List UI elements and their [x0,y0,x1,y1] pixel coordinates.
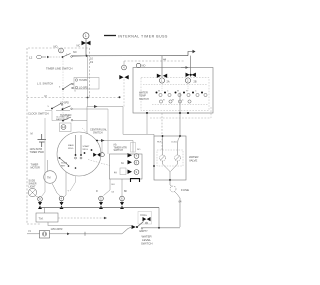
timer dashed partition [27,97,120,99]
legend: internal timer buss [104,34,168,38]
svg-text:BU: BU [112,184,115,186]
winding junction dots [75,154,77,156]
clock switch contacts [51,104,70,111]
svg-text:SWITCH: SWITCH [141,242,152,246]
main wdg label [68,144,74,150]
mid tick [84,232,86,236]
water valve label [189,155,198,163]
ls switch contacts [62,83,73,90]
dashed row divider [143,84,207,86]
no triangle [128,153,133,157]
svg-text:SUDS: SUDS [61,163,68,165]
wire x87 into motor top [86,107,88,134]
arrow tick on y106.5 [94,105,98,108]
svg-text:MAIN: MAIN [68,144,74,147]
svg-text:L.S. SWITCH: L.S. SWITCH [37,82,53,86]
timer dashed enclosure right edge [89,48,91,98]
bottom buss drop at x44.5 [44,208,46,214]
start wdg connector triangles [93,153,100,157]
pin dashes down [161,83,163,91]
wire x180 down to water level switch [179,204,181,227]
buss junction dot [86,55,88,57]
wire x123 down to valve feed [122,107,124,135]
inner circled 2 [134,170,139,175]
pin stems [40,201,122,203]
pin circled P4 [120,196,125,201]
wire from node 1 down to buss [85,39,87,56]
lid switch row 1 [62,106,108,154]
svg-text:WDG: WDG [83,149,89,151]
suds tap label [61,163,68,168]
svg-text:L2: L2 [29,56,33,60]
suds pilot light [28,188,36,196]
connector triangles x162 [157,74,167,78]
dashes to switch [50,56,60,58]
arrowhead [193,50,196,53]
long bottom line [70,233,122,235]
svg-text:TM: TM [47,177,50,180]
inner circled 1 [134,160,139,165]
tiny contact labels [158,90,197,101]
pin circled P2 [59,196,64,201]
svg-text:EMPTY: EMPTY [140,230,149,233]
wire valve to fuse to water level [170,180,172,187]
timer motor circle [44,171,57,184]
inner triangle 1 [128,160,133,164]
water level switch label [141,235,152,246]
motor feed line y106.5 [87,106,123,108]
valve top leads [162,136,164,155]
motor tap dot and arm [59,157,61,159]
power plug [40,231,50,239]
tiny contact number labels in timer column [48,54,77,120]
junction dot valve left [153,165,155,167]
circled pin under x162 [159,78,164,83]
svg-text:SWITCH: SWITCH [139,98,149,101]
TM box [36,213,58,222]
svg-text:19: 19 [90,60,94,64]
valve output diagonals [163,161,178,180]
svg-text:WATER: WATER [189,155,198,159]
dashed line from TM box [58,217,105,219]
node 1 circled [83,33,89,39]
wire water temp switch down to water level switch x180 [179,93,181,137]
full contact frame [138,212,152,225]
svg-text:VALVE: VALVE [189,159,197,163]
svg-text:MOTOR: MOTOR [31,167,40,170]
svg-text:SWITCH: SWITCH [114,149,124,152]
connector triangles on 44 drop [119,75,128,79]
empty contact [141,228,143,230]
node 44 corner drop [123,61,125,65]
svg-text:HI-SPD: HI-SPD [79,79,87,82]
svg-text:1: 1 [85,34,87,38]
svg-text:NO: NO [73,51,77,54]
junction dot bus drop [158,227,160,229]
svg-text:1A: 1A [62,125,65,129]
wire corner into lid switch [45,111,62,121]
second bottom line [48,222,131,226]
pilot light lead [36,196,40,198]
svg-text:2B: 2B [194,81,197,84]
dashed actuator link [82,128,91,136]
drive motor circle [57,132,101,176]
svg-text:NO: NO [137,149,141,151]
capacitor symbol [38,134,47,147]
svg-text:FULL: FULL [141,213,148,217]
circled pin 5 [134,154,139,159]
circled B left in box [136,63,140,67]
water valve box [154,136,186,180]
water temp contacts row 1 dots [156,92,204,94]
internal timer buss dashed line 44 [124,60,185,62]
buss end arrow up right [188,52,193,56]
valve inner dashed box [157,150,183,166]
buss drop to full contact [158,208,160,228]
svg-text:SWITCH: SWITCH [93,131,103,134]
svg-text:LO-SPD: LO-SPD [60,101,69,104]
pin circled P3 [99,196,104,201]
dashed line under box [150,117,211,119]
wire timer contact to water valve [123,134,154,136]
circled pin at 44 drop [122,65,127,70]
timer motor power label [30,148,44,154]
svg-text:NC: NC [77,44,81,48]
svg-text:M: M [45,95,47,98]
centrifugal switch label [90,129,108,135]
full contact circle [146,222,148,224]
connector triangles on bottom buss [38,202,124,209]
svg-text:RET: RET [61,165,66,167]
svg-text:4A: 4A [114,172,117,175]
water temp contacts row 1 circles [159,93,207,96]
timer motor label [31,164,40,170]
fuse [170,186,189,192]
partition end dot [119,96,121,98]
selector contacts [75,79,77,81]
dashed link rows [152,104,208,106]
svg-text:START: START [83,145,91,148]
incoming connector triangle left of pivot [132,225,136,229]
wire down at x190.7 to water temp box [190,56,192,77]
svg-text:TIMER LINE SWITCH: TIMER LINE SWITCH [46,67,72,71]
svg-text:INTERNAL TIMER BUSS: INTERNAL TIMER BUSS [118,34,168,38]
circled contact in box [61,125,66,130]
svg-text:N: N [29,229,31,233]
junction dots under box [179,112,181,114]
svg-text:HOT: HOT [157,142,162,144]
tick arrow [67,233,70,236]
motor internal dots [68,165,70,167]
water temp switch box [133,68,213,114]
water temp switch label [139,92,149,101]
node 2 circled [59,48,64,53]
connector bracket under start box [131,179,140,183]
wire down at x162 from buss to water temp box [161,56,163,77]
svg-text:W: W [158,90,160,92]
svg-text:NO: NO [142,64,146,68]
svg-text:2A: 2A [167,81,170,84]
timer line switch contacts [62,51,86,58]
svg-text:HI-SPEED: HI-SPEED [60,114,72,117]
connector triangles x190.7 [186,73,196,77]
svg-text:W: W [172,99,174,101]
svg-text:BK: BK [124,191,128,193]
timer motor wire [44,118,46,192]
switch arm [137,222,144,228]
svg-text:3A: 3A [121,162,124,165]
water level switch [136,212,152,233]
tick arrow [47,56,50,59]
timer motor switch label block [114,144,128,153]
junction dot partition crossing [87,97,89,99]
box bottom leads [104,179,111,196]
plug line right [50,233,68,235]
wire water temp box to valve feed [146,113,148,134]
centrifugal wire right [97,141,133,153]
svg-text:W: W [177,90,179,92]
valve top junction dots [162,135,164,137]
start switch box [110,154,143,179]
timer dashed enclosure left edge [26,48,28,224]
actuator dashed diagonal [88,160,110,166]
main winding leads [76,135,82,155]
svg-text:COLD: COLD [171,142,177,144]
small connector rect on start box feed [131,143,136,153]
connector triangles on node1 wire [82,41,91,45]
cold solenoid [175,155,181,161]
start wdg label [83,145,91,151]
suds light label [29,180,37,189]
line N to plug [27,233,40,235]
start wdg junction dots [91,149,93,151]
main horizontal timer buss [72,55,188,57]
cord connector glyph [36,55,46,59]
main bottom buss [40,207,159,209]
feeder dash vertical x63 [62,58,64,121]
junction dot on x190.7 wire [190,74,192,76]
circled pins under x190.7 [185,78,190,83]
start wdg circled pin [100,153,104,157]
inner triangle 2 [128,170,133,174]
svg-text:44: 44 [163,57,167,61]
timer dashed bottom stub [27,223,40,225]
timer dashed enclosure top edge [28,47,90,49]
junction dot valve bottom [169,179,171,181]
svg-text:CLOCK SWITCH: CLOCK SWITCH [28,112,49,116]
water level switch right lead [143,227,180,229]
arrow tick left of x190.7 wire [181,67,186,69]
arrow tick on centrifugal wire [101,139,105,142]
motor bottom lead left [64,172,67,197]
wire water temp box to hot valve [161,113,163,150]
svg-text:T.M.: T.M. [39,217,44,221]
svg-text:115V-60HZ: 115V-60HZ [51,228,63,231]
aux contact box [60,123,72,132]
lid switch row 2 [62,117,87,122]
svg-text:WDG: WDG [68,148,74,150]
svg-text:NO: NO [54,45,58,49]
timer motor circle M glyph [30,190,32,192]
svg-text:TIMER PWR: TIMER PWR [30,151,44,154]
junction dot on circle right [96,140,98,142]
diagonal up to water level switch [122,227,131,234]
full contact triangles [143,217,147,221]
hot solenoid [160,155,166,161]
svg-text:FUSE: FUSE [181,188,189,192]
pivot dot [136,226,138,228]
wire x87 buss down [87,56,89,107]
motor bottom lead right [70,176,76,191]
inner small rect [120,168,126,175]
speed selector box [74,78,99,90]
dashed continuation down [123,79,125,107]
svg-text:LO-SPD: LO-SPD [79,87,88,90]
svg-text:M: M [31,133,33,136]
water temp contacts row 2 circles [159,100,191,103]
pin circled P1 [38,197,43,202]
inner dashed box [141,78,209,111]
